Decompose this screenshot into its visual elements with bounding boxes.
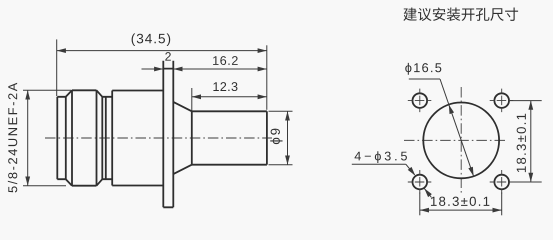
cable entry cylinder phi9 bbox=[192, 111, 267, 164]
mounting hole bottom-left bbox=[408, 170, 432, 194]
relief groove bbox=[102, 91, 112, 186]
leader and label 4-phi3.5 bbox=[352, 164, 432, 197]
dimension 18.3 +/-0.1 vertical bbox=[509, 101, 542, 182]
dimension (34.5) overall length bbox=[57, 39, 267, 109]
thread chamfer left bbox=[66, 90, 72, 185]
main hole circle phi16.5 bbox=[423, 102, 499, 178]
rear taper cone bbox=[173, 102, 192, 174]
thread chamfer right bbox=[97, 90, 103, 185]
mounting hole bottom-right bbox=[490, 170, 514, 194]
mounting hole top-right bbox=[490, 89, 514, 113]
title: recommended mounting hole dimensions (Chinese) bbox=[403, 8, 518, 21]
centerline of connector axis bbox=[45, 137, 272, 139]
thread callout 5/8-24UNEF-2A bbox=[23, 90, 71, 185]
coupling nut front face bbox=[57, 97, 66, 179]
panel cut-out centerlines bbox=[404, 139, 508, 141]
dimension 2 flange thickness bbox=[142, 67, 164, 72]
connector body barrel bbox=[112, 91, 163, 186]
thread section 5/8-24UNEF outer diameter bbox=[72, 90, 97, 185]
mounting flange bbox=[163, 61, 173, 208]
mounting hole top-left bbox=[408, 89, 432, 113]
dimension 18.3 +/-0.1 horizontal bbox=[420, 193, 502, 216]
dimension 16.2 bbox=[173, 67, 266, 72]
phi16.5 diameter dimension with leader bbox=[409, 79, 476, 177]
dimension phi9 cable diameter bbox=[269, 111, 293, 164]
dimension 12.3 bbox=[192, 88, 267, 111]
